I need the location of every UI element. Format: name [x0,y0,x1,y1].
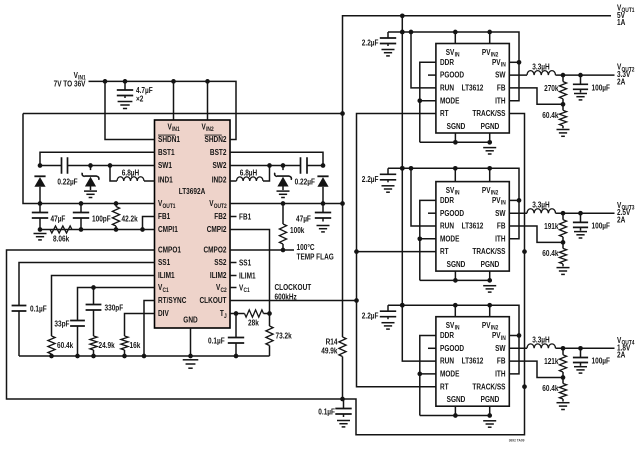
svg-text:IN: IN [455,53,460,59]
wire SVIN rail [388,303,521,374]
svg-text:PV: PV [482,48,491,57]
svg-text:42.2k: 42.2k [122,214,139,223]
svg-text:ITH: ITH [495,370,506,379]
capacitor 100uF [573,75,610,93]
svg-text:191k: 191k [544,222,559,231]
svg-text:0.22µF: 0.22µF [295,178,315,187]
resistor 60.4k divider bottom [542,242,566,266]
wire VIN1 pin [173,81,175,120]
wire PVIN2 pin [489,305,491,317]
wire 5V top rail [343,13,612,113]
svg-text:LT3612: LT3612 [462,357,484,366]
svg-text:LT3612: LT3612 [462,222,484,231]
resistor 60.4k divider bottom [542,104,566,128]
wire SVIN pin [454,305,456,317]
svg-text:SHDN2: SHDN2 [205,135,227,144]
svg-text:RUN: RUN [440,84,454,93]
capacitor C11 0.1uF flag filter [318,399,351,417]
svg-text:DDR: DDR [440,331,454,340]
ground [33,234,46,240]
resistor R1 42.2k [112,204,138,230]
wire RT2 link [357,251,436,253]
svg-text:60.4k: 60.4k [542,384,559,393]
svg-text:IN: IN [501,201,506,207]
wire DDR-MODE tie [417,200,435,280]
wire SW1 node [38,163,155,168]
svg-text:RT: RT [440,247,449,256]
svg-text:RT: RT [440,109,449,118]
wire PVIN pin [509,199,519,201]
wire SVIN rail [388,30,521,101]
diode D4 schottky catch [275,166,292,191]
capacitor C4 47uF [32,204,66,230]
ground [84,191,97,197]
wire 5V link [23,111,345,116]
wire RUN riser [411,32,436,88]
wire PVIN2 pin [489,32,491,44]
ground [381,50,394,56]
svg-text:IN: IN [455,326,460,332]
ground [316,226,329,232]
wire FB jog [509,361,565,380]
svg-text:×2: ×2 [136,95,144,104]
svg-text:ITH: ITH [495,96,506,105]
svg-text:MODE: MODE [440,96,460,105]
node ILIM1 stub [230,271,256,280]
svg-text:2.2µF: 2.2µF [362,175,379,184]
svg-text:PGND: PGND [481,395,500,404]
ground [183,360,199,368]
svg-text:CLOCKOUT: CLOCKOUT [275,283,312,292]
ground [556,130,569,137]
svg-text:6.8µH: 6.8µH [122,168,140,177]
resistor 60.4k divider bottom [542,378,566,402]
ground [574,94,587,100]
svg-text:0.1µF: 0.1µF [30,304,47,313]
capacitor C1 4.7uF [117,81,153,103]
capacitor 2.2uF [362,305,396,321]
svg-text:ITH: ITH [495,234,506,243]
svg-text:SV: SV [446,48,455,57]
svg-text:FB: FB [497,84,506,93]
svg-text:100°C: 100°C [297,243,315,252]
svg-text:DDR: DDR [440,58,454,67]
ground [381,323,394,329]
wire ground bus left [19,354,270,359]
wire SVIN pin [454,168,456,181]
svg-text:ILIM1: ILIM1 [239,271,256,280]
wire VIN2 pin [207,81,209,120]
svg-text:100µF: 100µF [592,357,611,366]
wire RT/SYNC [144,301,155,357]
svg-text:121k: 121k [544,357,559,366]
node PGOOD stub [428,74,436,76]
svg-text:3.3µH: 3.3µH [532,62,550,71]
resistor R4 28k [245,310,264,327]
svg-text:60.4k: 60.4k [57,341,74,350]
wire CMPI2 link [230,230,270,314]
node OUT2 label [617,63,635,87]
wire FB jog [509,226,565,245]
svg-text:CMPI2: CMPI2 [207,225,227,234]
op-amp U3 LT3612 [436,182,509,272]
wire flag to track bus [340,114,527,435]
svg-text:SS2: SS2 [214,258,227,267]
svg-text:FB: FB [497,357,506,366]
node VC1 stub [230,283,250,294]
svg-text:33pF: 33pF [54,319,69,328]
wire FB divider node [38,217,155,232]
wire SHDN1 [105,81,155,139]
resistor R14 49.9k [321,337,346,399]
wire SVIN pin [454,32,456,44]
svg-text:SV: SV [446,321,455,330]
capacitor C2 0.22uF [57,157,77,186]
op-amp U2 LT3612 [436,44,509,134]
ground [483,421,496,427]
svg-text:PGND: PGND [481,260,500,269]
svg-text:24.9k: 24.9k [99,341,116,350]
wire 5V to VOUT2 and R14 [342,114,344,338]
svg-text:OUT1: OUT1 [163,204,177,210]
svg-text:IN: IN [501,336,506,342]
svg-text:IND1: IND1 [158,175,173,184]
ground [574,232,587,238]
inductor L2 6.8uH [230,166,270,182]
capacitor 2.2uF [362,32,396,48]
resistor R8 16k [121,314,155,357]
svg-text:MODE: MODE [440,234,460,243]
wire RT bus [354,114,437,387]
svg-text:PV: PV [482,321,491,330]
svg-text:LT3692A: LT3692A [179,187,206,196]
svg-text:0.1µF: 0.1µF [208,336,225,345]
resistor 191k divider top [544,213,567,242]
wire BST1 [40,152,155,165]
svg-text:PV: PV [482,186,491,195]
svg-text:16k: 16k [130,341,141,350]
wire TJ node [230,311,272,316]
svg-text:SGND: SGND [447,122,466,131]
svg-text:IN: IN [455,191,460,197]
svg-text:SGND: SGND [447,260,466,269]
svg-text:IN1: IN1 [172,127,180,133]
resistor 270k divider top [544,75,567,104]
capacitor C8 33pF [54,285,154,356]
svg-text:600kHz: 600kHz [275,292,297,301]
svg-text:SGND: SGND [447,395,466,404]
wire PVIN pin [509,61,519,63]
svg-text:100µF: 100µF [592,221,611,230]
inductor 3.3uH [509,336,614,351]
wire FB jog [509,88,565,107]
wire block ground [420,271,492,283]
svg-text:SW: SW [495,344,506,353]
ground [556,403,569,410]
capacitor C9 330pF [86,288,124,337]
svg-text:SW1: SW1 [158,161,172,170]
svg-text:CLKOUT: CLKOUT [200,296,227,305]
svg-text:ILIM1: ILIM1 [158,271,175,280]
wire CMPO2 temp flag [230,243,334,261]
svg-text:2A: 2A [617,78,625,87]
svg-text:PGND: PGND [481,122,500,131]
wire block ground [420,133,492,145]
svg-text:47µF: 47µF [296,214,311,223]
ground [483,148,496,154]
diode D1 boost [34,176,45,203]
svg-text:RUN: RUN [440,357,454,366]
svg-text:SS1: SS1 [158,258,171,267]
wire SW2 node [230,163,325,168]
svg-text:0.1µF: 0.1µF [318,407,335,416]
wire VOUT2 rail [230,201,345,206]
svg-text:TRACK/SS: TRACK/SS [472,247,506,256]
svg-text:2A: 2A [617,216,625,225]
svg-text:100µF: 100µF [592,83,611,92]
svg-text:7V TO 36V: 7V TO 36V [54,80,86,89]
capacitor 100uF [573,348,610,366]
svg-text:1A: 1A [617,18,625,27]
ground [276,191,289,197]
node FB1 stub [230,212,252,221]
diode D2 schottky catch [82,166,99,191]
ground [556,268,569,275]
svg-text:C1: C1 [244,288,251,294]
resistor R5 73.2k [266,314,292,357]
svg-text:FB2: FB2 [214,212,227,221]
node VOUT1 label [617,3,635,27]
svg-text:60.4k: 60.4k [542,111,559,120]
resistor R3 100k [279,204,304,251]
svg-text:270k: 270k [544,84,559,93]
node OUT4 label [617,336,635,360]
svg-text:8.06k: 8.06k [53,235,70,244]
svg-text:PGOOD: PGOOD [440,344,464,353]
wire VIN rail [89,79,237,139]
svg-text:SW: SW [495,71,506,80]
svg-text:100k: 100k [290,226,305,235]
capacitor 2.2uF [362,168,396,184]
svg-text:OUT2: OUT2 [214,204,228,210]
svg-text:330pF: 330pF [105,303,124,312]
wire CLKOUT [230,283,357,301]
svg-text:2A: 2A [617,351,625,360]
svg-text:CMPO2: CMPO2 [204,246,227,255]
svg-text:SV: SV [446,186,455,195]
svg-text:PV: PV [492,58,501,67]
svg-text:0.22µF: 0.22µF [57,178,77,187]
svg-text:SW: SW [495,209,506,218]
capacitor C7 0.1uF soft-start [12,263,155,357]
svg-text:LT3612: LT3612 [462,84,484,93]
svg-text:DIV: DIV [158,309,169,318]
wire CMPO1 loop [7,250,343,399]
svg-text:SHDN1: SHDN1 [158,135,180,144]
resistor R2 8.06k [50,226,72,244]
op-amp U1 LT3692A [155,120,231,328]
svg-text:SW2: SW2 [213,161,227,170]
svg-text:100pF: 100pF [92,214,111,223]
svg-text:CMPI1: CMPI1 [158,225,178,234]
wire PVIN pin [509,335,519,337]
svg-text:RUN: RUN [440,222,454,231]
svg-text:FB1: FB1 [158,212,171,221]
svg-text:2.2µF: 2.2µF [362,39,379,48]
node VIN1 label [54,71,87,89]
ground [381,186,394,192]
svg-text:TEMP FLAG: TEMP FLAG [297,252,334,261]
resistor R7 24.9k [90,336,115,356]
svg-text:PGOOD: PGOOD [440,209,464,218]
resistor R6 60.4k [48,276,155,357]
svg-text:C2: C2 [220,288,227,294]
node PGOOD stub [428,347,436,349]
inductor L1 6.8uH [110,166,155,182]
wire GND pin [190,328,192,356]
wire BST2 [230,152,323,165]
svg-text:RT: RT [440,382,449,391]
svg-text:ILIM2: ILIM2 [210,271,227,280]
svg-text:60.4k: 60.4k [542,249,559,258]
svg-text:BST2: BST2 [210,148,227,157]
svg-text:TRACK/SS: TRACK/SS [472,382,506,391]
capacitor C5 100pF [73,204,111,230]
capacitor C3 0.22uF [295,157,315,186]
ground [483,286,496,292]
wire DDR-MODE tie [417,336,435,416]
svg-text:PGOOD: PGOOD [440,71,464,80]
svg-text:3.3µH: 3.3µH [532,200,550,209]
ground [118,102,133,109]
wire DDR-MODE tie [417,62,435,142]
svg-text:CMPO1: CMPO1 [158,246,181,255]
svg-text:FB: FB [497,222,506,231]
svg-text:BST1: BST1 [158,148,175,157]
svg-text:47µF: 47µF [51,214,66,223]
inductor 3.3uH [509,62,614,77]
svg-text:IN: IN [501,63,506,69]
svg-text:FB1: FB1 [239,212,252,221]
wire PVIN2 pin [489,168,491,181]
svg-text:C1: C1 [163,288,170,294]
svg-text:R14: R14 [326,337,338,346]
svg-text:DDR: DDR [440,196,454,205]
capacitor C6 47uF [296,204,331,224]
node SS1 stub [230,258,252,267]
svg-text:PV: PV [492,196,501,205]
wire block ground [420,406,492,418]
svg-text:TRACK/SS: TRACK/SS [472,109,506,118]
resistor 121k divider top [544,348,567,377]
svg-text:73.2k: 73.2k [276,331,293,340]
svg-text:PV: PV [492,331,501,340]
svg-text:6.8µH: 6.8µH [240,168,258,177]
ground [574,367,587,373]
svg-text:SS1: SS1 [239,258,252,267]
wire RUN bus [400,16,436,361]
wire RUN riser [411,168,436,226]
op-amp U4 LT3612 [436,317,509,407]
svg-text:3.3µH: 3.3µH [532,336,550,345]
wire VOUT1 rail [23,114,155,206]
inductor 3.3uH [509,200,614,215]
node OUT3 label [617,201,635,225]
wire SVIN rail [388,166,521,239]
svg-text:IN2: IN2 [206,127,214,133]
svg-text:IND2: IND2 [212,175,227,184]
node PGOOD stub [428,212,436,214]
capacitor C10 0.1uF [208,314,244,357]
svg-text:RT/SYNC: RT/SYNC [158,296,187,305]
diode D3 boost [317,176,328,203]
capacitor 100uF [573,213,610,231]
svg-text:GND: GND [183,316,198,325]
svg-text:J: J [224,314,227,320]
svg-text:49.9k: 49.9k [321,347,338,356]
svg-text:2.2µF: 2.2µF [362,312,379,321]
svg-text:28k: 28k [248,318,259,327]
svg-text:3692 TA09: 3692 TA09 [509,438,525,443]
svg-text:MODE: MODE [440,370,460,379]
ground [337,421,350,427]
